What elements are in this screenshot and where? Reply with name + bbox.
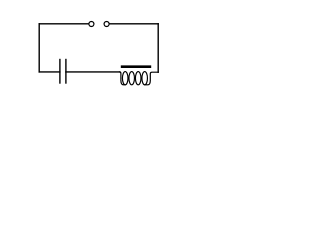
inductor L1 core bar [121, 65, 151, 68]
inductor L1 entry hook [120, 72, 126, 85]
switch S1 terminal left [89, 22, 94, 27]
switch S1 terminal right [104, 22, 109, 27]
wire bottom-left to capacitor [39, 71, 60, 73]
inductor L1 loop 4 [142, 72, 148, 85]
wire left vertical [38, 24, 40, 72]
capacitor C1 plate left [59, 60, 61, 84]
wire top-left horizontal [39, 23, 88, 25]
inductor L1 loop 1 [122, 72, 128, 85]
inductor L1 loop 3 [135, 72, 141, 85]
wire capacitor to inductor [66, 71, 120, 73]
inductor L1 loop 2 [129, 72, 135, 85]
wire top-right horizontal [110, 23, 159, 25]
wire right vertical [157, 24, 159, 72]
inductor L1 exit hook [145, 72, 159, 85]
capacitor C1 plate right [65, 60, 67, 84]
